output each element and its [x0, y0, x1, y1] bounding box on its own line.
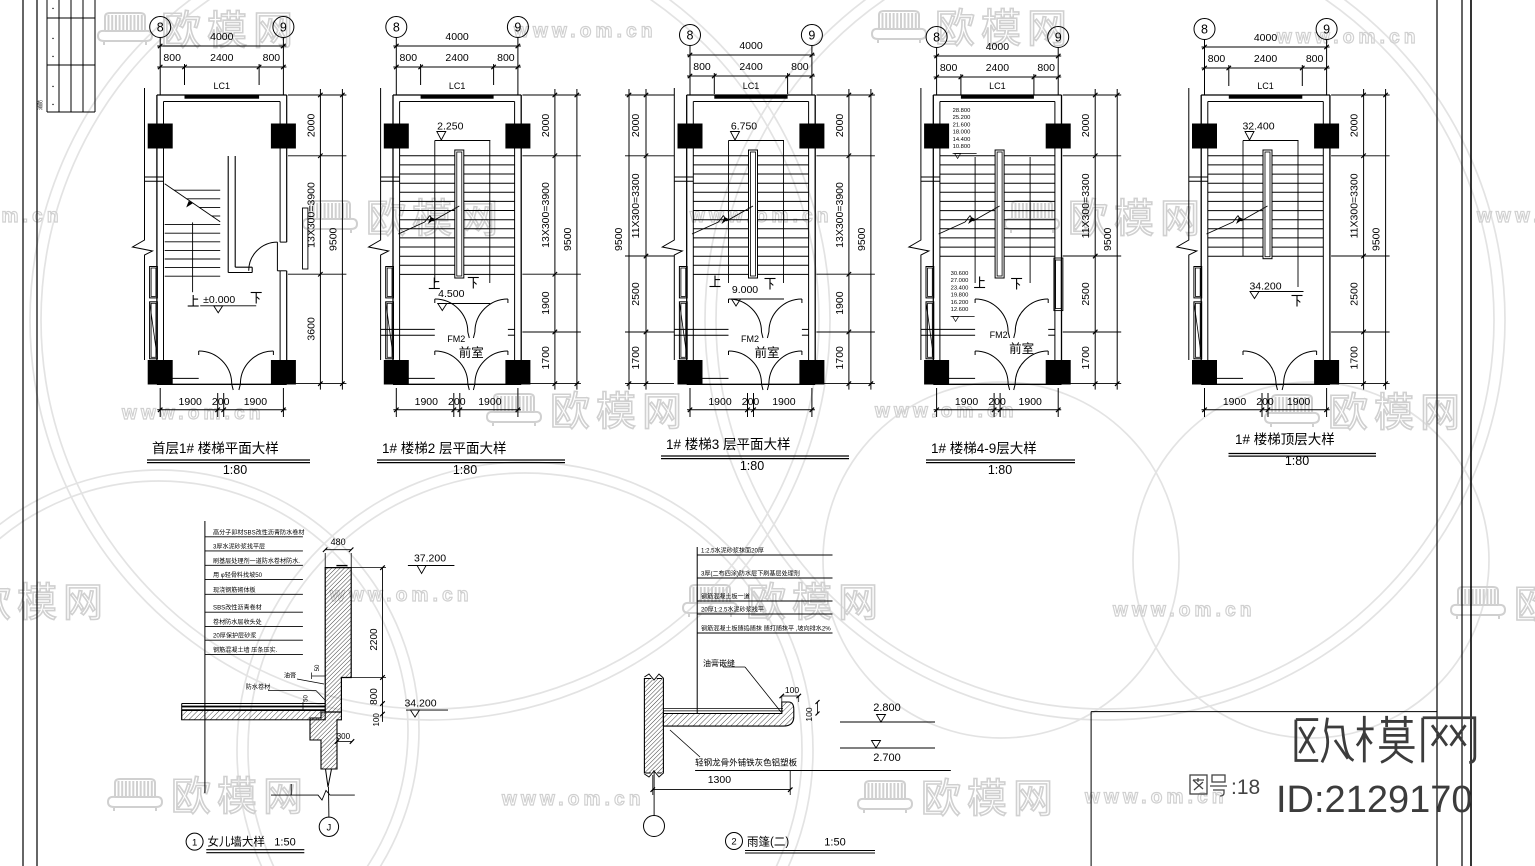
double door [1243, 351, 1276, 384]
column bottom-right [1314, 360, 1339, 385]
svg-text:2.250: 2.250 [437, 121, 463, 133]
svg-text:刷基层处理剂一道防水卷材防水.: 刷基层处理剂一道防水卷材防水. [213, 557, 300, 565]
svg-text:9500: 9500 [562, 227, 574, 251]
svg-text:9.000: 9.000 [732, 284, 758, 296]
svg-text:前室: 前室 [754, 345, 779, 360]
outer wall bottom [157, 383, 287, 385]
svg-text:200: 200 [212, 396, 230, 408]
exterior wall line left [1188, 88, 1190, 235]
grid line 9 [1057, 48, 1059, 96]
cross wall stub left [381, 176, 400, 178]
column bottom-left [1192, 360, 1217, 385]
svg-text:800: 800 [369, 688, 380, 705]
svg-text:欧模网: 欧模网 [746, 581, 884, 625]
window LC1 band [714, 96, 787, 99]
exterior wall line left [144, 88, 146, 235]
svg-text:欧模网: 欧模网 [0, 581, 109, 625]
direction diagonal [1207, 222, 1234, 234]
grid line 9 [517, 38, 519, 96]
break symbol [133, 235, 153, 258]
cross wall stub left [145, 176, 164, 178]
svg-text:9: 9 [280, 21, 287, 35]
svg-text:1900: 1900 [1019, 396, 1043, 408]
label up [429, 278, 440, 289]
wall below slab with drip [310, 712, 341, 769]
svg-text:4000: 4000 [1254, 32, 1278, 44]
column bottom-left [384, 360, 409, 385]
svg-text:1# 楼梯2 层平面大样: 1# 楼梯2 层平面大样 [382, 441, 507, 456]
roof slab hatched [182, 711, 326, 720]
svg-text:9: 9 [1323, 23, 1330, 37]
outer wall left [156, 95, 158, 384]
svg-text:油膏嵌缝: 油膏嵌缝 [703, 658, 735, 668]
svg-text:1:80: 1:80 [453, 463, 477, 477]
svg-text:25.200: 25.200 [953, 115, 971, 121]
svg-text:1:80: 1:80 [223, 463, 247, 477]
svg-text:LC1: LC1 [214, 81, 231, 91]
svg-text:9: 9 [808, 29, 815, 43]
bottom dimension 1900 200 1900 [159, 388, 161, 417]
walk lines [728, 141, 730, 284]
svg-text:www.om.cn: www.om.cn [501, 789, 645, 810]
svg-text:13X300=3900: 13X300=3900 [834, 182, 846, 248]
svg-text:1900: 1900 [244, 396, 268, 408]
bottom dimension 1900 200 1900 [1204, 388, 1206, 417]
canopy wall hatched [644, 679, 663, 774]
svg-text:1700: 1700 [1080, 346, 1092, 370]
svg-text:1700: 1700 [540, 346, 552, 370]
svg-text:www.om.cn: www.om.cn [1276, 27, 1420, 48]
outer wall bottom [687, 383, 816, 385]
svg-text:800: 800 [497, 52, 515, 64]
svg-text:▪: ▪ [52, 6, 54, 12]
svg-text:1:50: 1:50 [274, 837, 295, 849]
svg-text:800: 800 [693, 61, 711, 73]
grid bubble 9 [1048, 27, 1069, 48]
outer wall left [686, 95, 688, 384]
outer wall left [392, 95, 394, 384]
cross wall stub left [674, 176, 693, 178]
svg-text:2000: 2000 [1080, 114, 1092, 138]
interior wall (front room) [921, 328, 975, 330]
title: canopy detail [726, 833, 743, 850]
svg-text:20厚保护层砂浆: 20厚保护层砂浆 [213, 632, 256, 640]
svg-text:30.600: 30.600 [951, 271, 969, 277]
svg-text:8: 8 [157, 21, 164, 35]
svg-text:FM2: FM2 [990, 330, 1008, 340]
window frame right wall [1054, 258, 1063, 311]
right dimension lines [319, 89, 321, 390]
svg-text:高分子卯材SBS改性沥青防水卷材: 高分子卯材SBS改性沥青防水卷材 [213, 528, 304, 536]
column top-left [924, 124, 949, 149]
stair treads [693, 155, 808, 157]
svg-text:9: 9 [1055, 31, 1062, 45]
column top-left [678, 124, 703, 149]
svg-text:欧模网: 欧模网 [550, 390, 688, 434]
svg-text:1:50: 1:50 [824, 837, 845, 849]
svg-text:1: 1 [192, 837, 197, 848]
svg-text:4000: 4000 [739, 40, 763, 52]
right dimension lines [1094, 89, 1096, 390]
break symbol [909, 235, 929, 258]
svg-text:28.800: 28.800 [953, 108, 971, 114]
column bottom-right [505, 360, 530, 385]
flight center line [192, 222, 194, 292]
grid bubble 9 [273, 17, 294, 38]
direction diagonal [939, 222, 966, 234]
wall top cap [336, 565, 347, 567]
exterior bay right [303, 208, 308, 269]
column top-right [1046, 124, 1071, 149]
cross wall stub left [1189, 176, 1208, 178]
svg-text:8: 8 [393, 21, 400, 35]
column top-left [1192, 124, 1217, 149]
svg-text:9500: 9500 [613, 227, 625, 251]
stair railing [749, 150, 758, 278]
label up [710, 276, 721, 287]
outer wall left [932, 95, 934, 384]
svg-text:1700: 1700 [834, 346, 846, 370]
svg-text:13X300=3900: 13X300=3900 [540, 182, 552, 248]
label down [1011, 279, 1022, 290]
bottom dimension 1900 200 1900 [395, 388, 397, 417]
svg-text:11X300=3300: 11X300=3300 [1349, 173, 1361, 238]
svg-text:1900: 1900 [1287, 396, 1311, 408]
svg-text:前室: 前室 [1009, 341, 1034, 356]
svg-text:14.400: 14.400 [953, 137, 971, 143]
direction diagonal [692, 222, 719, 234]
outer wall top [687, 94, 816, 96]
window frame left 1 [679, 267, 687, 298]
wall break tail [326, 769, 332, 787]
right dim line (2200/800/100) [382, 568, 384, 722]
svg-text:LC1: LC1 [1257, 81, 1274, 91]
grid bubble 9 [1316, 19, 1337, 40]
svg-text:www.om.cn: www.om.cn [1112, 600, 1256, 621]
svg-text:钢筋混凝土板随捣随抹 随打随抹平 ,坡向排水2%: 钢筋混凝土板随捣随抹 随打随抹平 ,坡向排水2% [701, 625, 831, 633]
svg-text:2200: 2200 [369, 628, 380, 651]
svg-text:800: 800 [163, 52, 181, 64]
svg-text:1300: 1300 [708, 774, 732, 786]
column top-right [1314, 124, 1339, 149]
svg-text:1700: 1700 [1349, 346, 1361, 370]
outer wall right [1329, 95, 1331, 384]
svg-text:1900: 1900 [540, 291, 552, 315]
svg-text:3厚(二布四涂)防水层下刷基层处理剂: 3厚(二布四涂)防水层下刷基层处理剂 [701, 570, 800, 578]
stair cut diagonal [165, 184, 221, 222]
watermark tiles [98, 13, 152, 45]
svg-text:1900: 1900 [708, 396, 732, 408]
svg-text:1:80: 1:80 [1285, 454, 1309, 468]
window frame left 2 [386, 302, 394, 359]
svg-text:21.600: 21.600 [953, 122, 971, 128]
svg-text:1# 楼梯顶层大样: 1# 楼梯顶层大样 [1235, 432, 1335, 447]
stair railing [1263, 150, 1272, 259]
svg-text:欧模网: 欧模网 [1328, 391, 1466, 435]
svg-text:800: 800 [400, 52, 418, 64]
walk lines [434, 141, 436, 284]
grid line 8 [1204, 40, 1206, 96]
svg-text:1700: 1700 [630, 346, 642, 370]
outer wall right [1061, 95, 1063, 384]
svg-text:钢筋混凝土板一道: 钢筋混凝土板一道 [701, 593, 750, 601]
bottom dimension 1900 200 1900 [936, 388, 938, 417]
svg-text:www.om.cn: www.om.cn [1476, 206, 1535, 227]
double door [975, 351, 1008, 384]
svg-text:8: 8 [933, 31, 940, 45]
grid bubble 8 [386, 17, 407, 38]
right dimension lines [1363, 89, 1365, 390]
parapet wall hatched [325, 568, 351, 712]
svg-text:9500: 9500 [856, 227, 868, 251]
svg-text:12.600: 12.600 [951, 307, 969, 313]
grid line 8 [936, 48, 938, 96]
svg-text:J: J [327, 823, 332, 834]
svg-text:2500: 2500 [630, 282, 642, 306]
svg-text:www.om.cn: www.om.cn [513, 21, 657, 42]
grid bubble 8 [1194, 19, 1215, 40]
svg-text:800: 800 [1208, 53, 1226, 65]
right dimension lines [554, 89, 556, 390]
stair treads [400, 155, 515, 157]
svg-text:FM2: FM2 [741, 334, 759, 344]
outer wall top [1201, 94, 1330, 96]
window LC1 band [1229, 96, 1303, 99]
svg-text:2400: 2400 [739, 61, 763, 73]
column bottom-right [1046, 360, 1071, 385]
svg-text:轻钢龙骨外铺铁灰色铝塑板: 轻钢龙骨外铺铁灰色铝塑板 [695, 758, 798, 768]
break symbol [369, 235, 389, 258]
svg-text:18.000: 18.000 [953, 130, 971, 136]
svg-text:1900: 1900 [415, 396, 439, 408]
outer wall top [157, 94, 287, 96]
svg-text:9: 9 [514, 21, 521, 35]
svg-text:200: 200 [1256, 396, 1274, 408]
svg-text:1:2.5水泥砂浆抹面20厚: 1:2.5水泥砂浆抹面20厚 [701, 547, 764, 555]
svg-text:800: 800 [263, 52, 281, 64]
window frame left 2 [1194, 302, 1202, 359]
svg-text:▪: ▪ [52, 54, 54, 60]
svg-text:雨篷(二): 雨篷(二) [747, 835, 789, 849]
double door [729, 351, 762, 384]
svg-text:1900: 1900 [834, 291, 846, 315]
svg-text:ID:2129170: ID:2129170 [1276, 779, 1473, 821]
grid line 9 [811, 46, 813, 96]
svg-text:2500: 2500 [1349, 282, 1361, 306]
svg-text:FM2: FM2 [447, 334, 465, 344]
double door [975, 299, 1008, 332]
svg-text:27.000: 27.000 [951, 278, 969, 284]
grid line 9 [1326, 40, 1328, 96]
svg-text:2400: 2400 [210, 52, 234, 64]
grid bubble 8 [150, 17, 171, 38]
double door [435, 351, 468, 384]
svg-text:10.800: 10.800 [953, 144, 971, 150]
svg-text:20厚1:2.5水泥砂浆找平: 20厚1:2.5水泥砂浆找平 [701, 606, 764, 614]
svg-text:1900: 1900 [1223, 396, 1247, 408]
svg-text:4000: 4000 [445, 31, 469, 43]
column top-left [384, 124, 409, 149]
right dimension lines [848, 89, 850, 390]
svg-text:4.500: 4.500 [438, 288, 464, 300]
svg-text:±0.000: ±0.000 [203, 294, 235, 306]
svg-text:23.400: 23.400 [951, 285, 969, 291]
label down [251, 293, 262, 304]
svg-text:16.200: 16.200 [951, 300, 969, 306]
grid bubble 8 [926, 27, 947, 48]
svg-text::18: :18 [1231, 776, 1260, 799]
svg-text:2: 2 [731, 837, 736, 848]
svg-text:1# 楼梯4-9层大样: 1# 楼梯4-9层大样 [931, 441, 1037, 456]
interior wall (front room) [381, 328, 435, 330]
column bottom-right [271, 360, 296, 385]
outer wall right [286, 95, 288, 242]
label up [188, 295, 199, 306]
svg-text:200: 200 [742, 396, 760, 408]
column bottom-right [799, 360, 824, 385]
svg-text:1900: 1900 [772, 396, 796, 408]
svg-text:2400: 2400 [445, 52, 469, 64]
svg-text:800: 800 [791, 61, 809, 73]
leader bubble empty [653, 770, 655, 816]
canopy spec notes [696, 547, 698, 714]
walk lines [974, 157, 976, 283]
interior door right (plan1) [249, 242, 278, 271]
break symbol [1177, 235, 1197, 258]
svg-text:2000: 2000 [305, 114, 317, 138]
svg-text:www.om.cn: www.om.cn [1084, 787, 1228, 808]
sheet border right [1436, 0, 1438, 866]
grid bubble 9 [507, 17, 528, 38]
title table top-left [46, 0, 48, 112]
svg-text:100: 100 [372, 713, 381, 727]
svg-text:50: 50 [304, 695, 310, 702]
svg-text:女儿墙大样: 女儿墙大样 [207, 835, 265, 849]
svg-text:2.800: 2.800 [873, 702, 901, 714]
label up [974, 277, 985, 288]
svg-text:6.750: 6.750 [731, 121, 757, 133]
grid bubble 8 [680, 25, 701, 46]
outer wall bottom [393, 383, 521, 385]
window frame left 1 [386, 267, 394, 298]
svg-text:2.700: 2.700 [873, 752, 901, 764]
svg-text:19.800: 19.800 [951, 293, 969, 299]
svg-text:100: 100 [804, 707, 814, 721]
svg-text:欧模网: 欧模网 [171, 775, 309, 819]
column bottom-left [148, 360, 173, 385]
svg-text:用 φ轻骨料找坡50: 用 φ轻骨料找坡50 [213, 571, 263, 579]
window LC1 band [421, 96, 494, 99]
svg-text:前室: 前室 [459, 345, 484, 360]
outer wall right [520, 95, 522, 384]
grid line 9 [282, 38, 284, 96]
column bottom-left [678, 360, 703, 385]
svg-text:4000: 4000 [986, 41, 1010, 53]
svg-text:13X300=3900: 13X300=3900 [305, 182, 317, 248]
svg-text:50: 50 [315, 664, 321, 671]
svg-text:欧模网: 欧模网 [1514, 583, 1535, 627]
svg-text:1:80: 1:80 [988, 463, 1012, 477]
svg-text:37.200: 37.200 [414, 553, 446, 565]
break symbol [662, 235, 682, 258]
svg-text:防水卷材: 防水卷材 [246, 683, 271, 691]
window frame left 2 [926, 302, 934, 359]
exterior wall line left [673, 88, 675, 235]
grid line 8 [395, 38, 397, 96]
svg-text:8: 8 [1201, 23, 1208, 37]
svg-text:480: 480 [331, 537, 346, 547]
elevation 2.700 [840, 747, 935, 749]
svg-text:8: 8 [687, 29, 694, 43]
svg-text:SBS改性沥青卷材: SBS改性沥青卷材 [213, 604, 262, 612]
label down [1292, 296, 1303, 307]
outer wall left [1200, 95, 1202, 384]
svg-text:1900: 1900 [478, 396, 502, 408]
svg-text:▪: ▪ [52, 102, 54, 108]
title: parapet detail [186, 833, 203, 850]
canopy slab hatched [663, 702, 793, 726]
svg-text:油膏: 油膏 [284, 672, 296, 680]
svg-text:11X300=3300: 11X300=3300 [1080, 173, 1092, 238]
cross wall stub left [921, 176, 940, 178]
outer wall top [393, 94, 521, 96]
window frame left 2 [679, 302, 687, 359]
svg-text:LC1: LC1 [449, 81, 466, 91]
svg-text:1900: 1900 [179, 396, 203, 408]
svg-text:4000: 4000 [210, 31, 234, 43]
svg-text:200: 200 [988, 396, 1006, 408]
stair treads [940, 155, 1055, 157]
stair flight bottom-left [174, 189, 220, 191]
roof slab layers [182, 703, 326, 705]
svg-text:首层1# 楼梯平面大样: 首层1# 楼梯平面大样 [152, 441, 279, 456]
svg-text:2000: 2000 [1349, 114, 1361, 138]
window LC1 band [961, 96, 1034, 99]
window frame left 1 [150, 267, 158, 298]
svg-text:2000: 2000 [630, 114, 642, 138]
leader to J [328, 787, 330, 817]
outer wall bottom [933, 383, 1061, 385]
svg-text:www.om.cn: www.om.cn [0, 206, 63, 227]
exterior wall line left [380, 88, 382, 235]
spec note lines [204, 521, 206, 793]
window frame left 1 [926, 267, 934, 298]
sheet border left [22, 0, 24, 866]
window LC1 band [185, 96, 260, 99]
column top-right [271, 124, 296, 149]
stair railing [455, 150, 464, 278]
column top-right [799, 124, 824, 149]
svg-text:2400: 2400 [1254, 53, 1278, 65]
bubble J [319, 817, 338, 836]
interior wall (front room) [674, 328, 728, 330]
column bottom-left [924, 360, 949, 385]
svg-text:34.200: 34.200 [1249, 281, 1281, 293]
column top-right [505, 124, 530, 149]
svg-text:800: 800 [1037, 62, 1055, 74]
svg-text:卷材防水层收头处: 卷材防水层收头处 [213, 618, 262, 626]
grid line 8 [159, 38, 161, 96]
svg-text:34.200: 34.200 [404, 698, 436, 710]
double door [199, 351, 232, 384]
svg-text:▪: ▪ [52, 36, 54, 42]
svg-text:800: 800 [1306, 53, 1324, 65]
svg-text:1# 楼梯3 层平面大样: 1# 楼梯3 层平面大样 [666, 437, 791, 452]
label down [765, 279, 776, 290]
outer wall top [933, 94, 1061, 96]
svg-text:钢筋混凝土墙 压条压实.: 钢筋混凝土墙 压条压实. [213, 646, 278, 654]
outer wall right [814, 95, 816, 384]
